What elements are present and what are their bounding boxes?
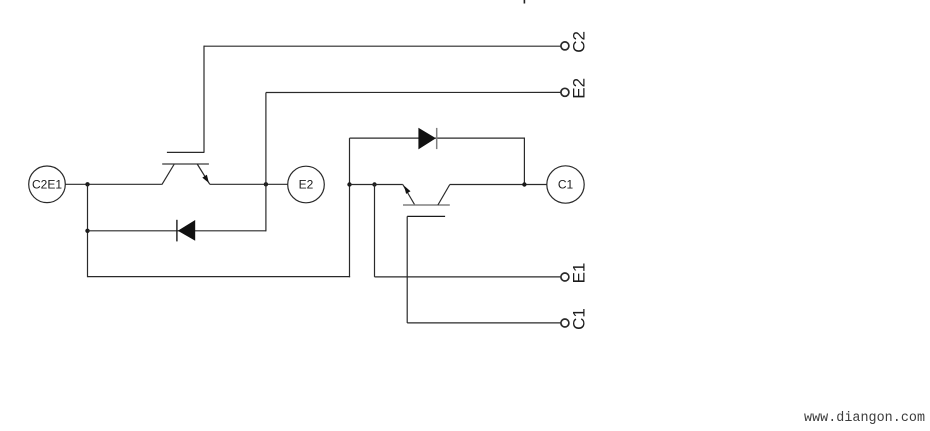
diode D1 (points left) [177, 220, 195, 242]
wire to terminal E1 [375, 276, 561, 278]
svg-text:E1: E1 [570, 263, 589, 284]
wire Q2 emitter row [350, 184, 403, 186]
transistor Q1 emitter leg with arrow [197, 164, 210, 184]
wire diode D2 right vertical [523, 138, 525, 184]
wire to terminal E2 [266, 91, 561, 93]
wire diode D1 row [88, 230, 266, 232]
wire to terminal C2 [204, 45, 561, 47]
transistor Q2 collector leg [438, 185, 450, 206]
svg-text:E2: E2 [299, 178, 314, 192]
svg-text:C1: C1 [570, 308, 589, 330]
terminal circle E2 mid [288, 166, 325, 203]
terminal circle C1 mid [547, 166, 584, 203]
wire right block left vertical [349, 138, 351, 277]
wire Q1 gate lead up [203, 46, 205, 153]
terminal circle C2 [561, 42, 569, 50]
wire E2 vertical [265, 93, 267, 232]
svg-text:C1: C1 [558, 178, 574, 192]
wire Q2 collector to C1 [450, 184, 547, 186]
wire Q1 emitter to E2 node [210, 183, 288, 185]
wire E1 vertical drop [374, 185, 376, 277]
wire vertical left branch down [87, 184, 89, 277]
svg-text:E2: E2 [570, 78, 589, 99]
transistor Q2 channel bar [403, 204, 450, 206]
transistor Q1 channel bar [162, 163, 209, 165]
wire diode D2 top run [350, 137, 526, 139]
node junction dot Q2 emitter net b [372, 182, 376, 186]
top edge cropped character tick [524, 0, 526, 4]
node junction dot at C2E1 branch [85, 182, 89, 186]
wire Q2 gate lead down [406, 216, 408, 323]
node junction dot E2 [264, 182, 268, 186]
transistor Q2 emitter leg with arrow [403, 185, 415, 206]
node junction dot at C1 branch [522, 182, 526, 186]
node junction dot at diode D1 anode branch [85, 229, 89, 233]
svg-text:www.diangon.com: www.diangon.com [804, 411, 925, 426]
wire C2E1 to IGBT Q1 collector [65, 183, 161, 185]
wire bottom C2E1 run [88, 276, 351, 278]
transistor Q1 gate bar [167, 151, 205, 153]
terminal circle C2E1 [29, 166, 66, 203]
svg-text:C2E1: C2E1 [32, 178, 62, 192]
terminal circle E2 top [561, 88, 569, 96]
diode D2 (points right) [418, 128, 436, 150]
wire to terminal C1 bottom [407, 322, 561, 324]
terminal circle C1 bottom [561, 319, 569, 327]
svg-text:C2: C2 [570, 31, 589, 53]
transistor Q1 collector leg [162, 164, 174, 185]
node junction dot Q2 emitter net a [347, 182, 351, 186]
transistor Q2 gate bar [407, 215, 445, 217]
terminal circle E1 [561, 273, 569, 281]
